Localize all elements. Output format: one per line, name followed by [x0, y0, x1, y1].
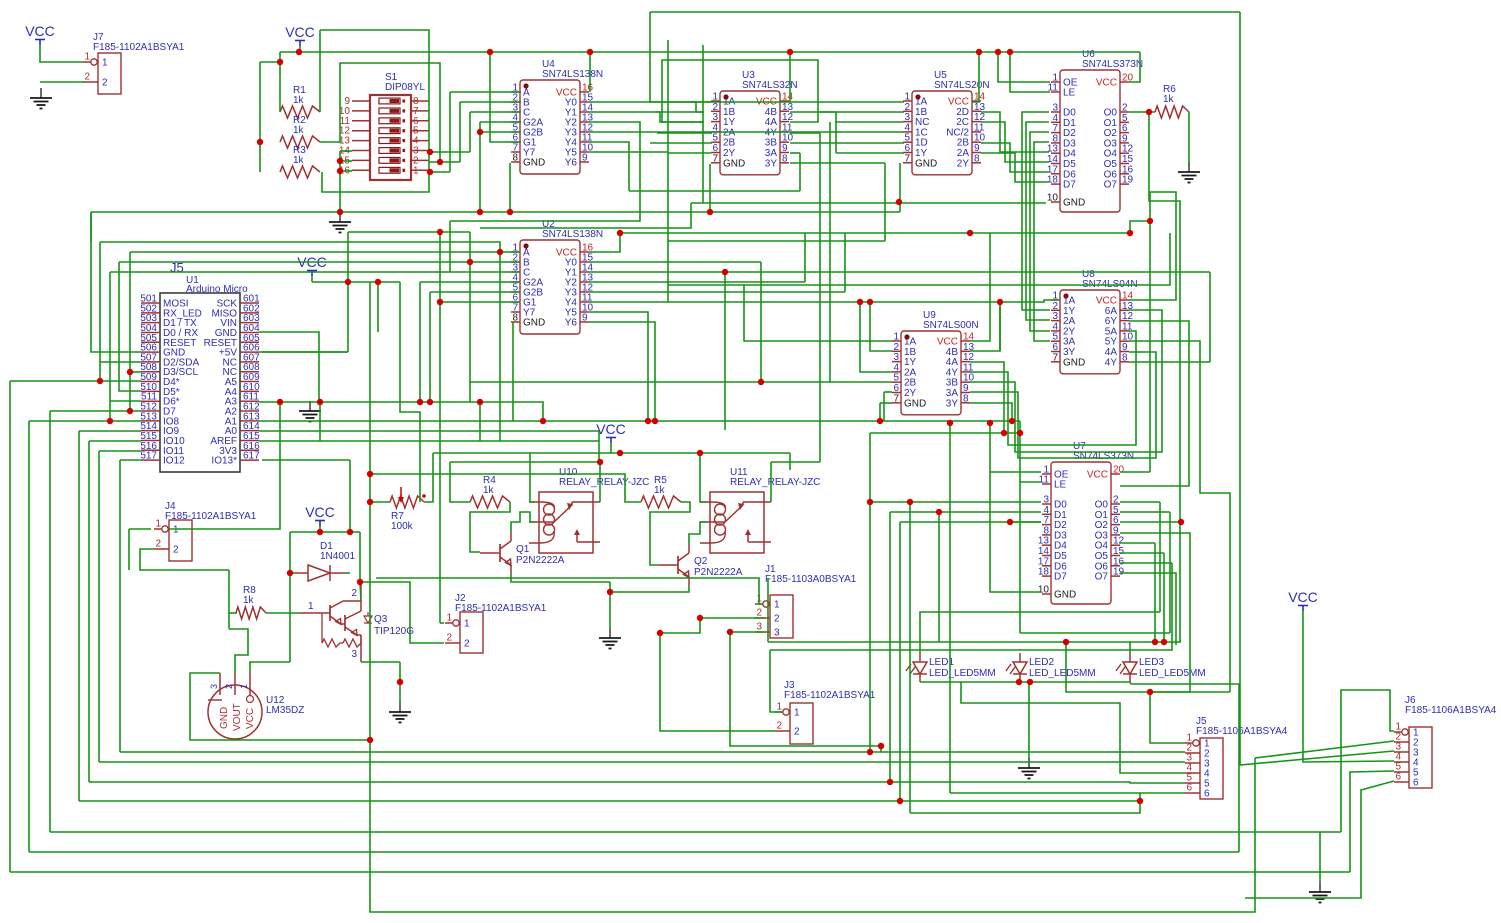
svg-text:10: 10: [1047, 193, 1059, 204]
svg-text:617: 617: [243, 451, 260, 462]
svg-text:2: 2: [155, 539, 161, 550]
svg-text:LM35DZ: LM35DZ: [266, 705, 304, 716]
svg-text:IO13*: IO13*: [211, 456, 237, 467]
svg-text:6: 6: [1186, 783, 1192, 794]
svg-text:3Y: 3Y: [765, 158, 778, 169]
svg-text:VCC: VCC: [305, 504, 335, 520]
svg-text:VCC: VCC: [596, 421, 626, 437]
svg-text:1k: 1k: [293, 155, 305, 166]
svg-text:GND: GND: [219, 707, 230, 729]
svg-text:2Y: 2Y: [957, 158, 970, 169]
svg-text:1k: 1k: [483, 485, 495, 496]
svg-text:1N4001: 1N4001: [320, 551, 355, 562]
svg-text:LE: LE: [1063, 88, 1076, 99]
svg-text:Y6: Y6: [565, 158, 578, 169]
svg-text:1k: 1k: [654, 485, 666, 496]
svg-text:6: 6: [1395, 772, 1401, 783]
svg-text:F185-1102A1BSYA1: F185-1102A1BSYA1: [455, 603, 547, 614]
svg-text:1: 1: [413, 165, 419, 176]
svg-text:GND: GND: [723, 158, 745, 169]
svg-text:7: 7: [893, 393, 899, 404]
svg-text:GND: GND: [915, 158, 937, 169]
svg-text:DIP08YL: DIP08YL: [385, 82, 425, 93]
svg-text:VCC: VCC: [285, 24, 315, 40]
svg-text:20: 20: [1113, 465, 1125, 476]
svg-text:1: 1: [84, 52, 90, 63]
svg-text:1: 1: [102, 58, 108, 69]
svg-text:8: 8: [1122, 352, 1128, 363]
svg-text:2: 2: [224, 684, 234, 689]
svg-text:3Y: 3Y: [946, 398, 959, 409]
svg-text:8: 8: [512, 153, 518, 164]
svg-text:GND: GND: [1063, 198, 1085, 209]
svg-text:VCC: VCC: [25, 23, 55, 39]
svg-text:2: 2: [794, 727, 800, 738]
svg-text:2: 2: [84, 72, 90, 83]
svg-text:2: 2: [351, 588, 357, 599]
svg-text:2: 2: [173, 545, 179, 556]
svg-text:LED_LED5MM: LED_LED5MM: [1139, 668, 1206, 679]
svg-text:P2N2222A: P2N2222A: [516, 555, 565, 566]
svg-text:1: 1: [239, 684, 249, 689]
svg-text:4Y: 4Y: [1105, 357, 1118, 368]
svg-text:6: 6: [1413, 778, 1419, 789]
svg-text:SN74LS373N: SN74LS373N: [1082, 59, 1143, 70]
svg-text:2: 2: [102, 78, 108, 89]
svg-text:VCC: VCC: [1096, 78, 1117, 89]
svg-text:7: 7: [904, 153, 910, 164]
svg-text:8: 8: [782, 153, 788, 164]
svg-text:3: 3: [351, 649, 357, 660]
svg-text:SN74LS00N: SN74LS00N: [923, 320, 979, 331]
svg-text:19: 19: [1122, 175, 1134, 186]
svg-text:F185-1106A1BSYA4: F185-1106A1BSYA4: [1196, 726, 1288, 737]
svg-text:9: 9: [582, 313, 588, 324]
svg-text:IO12: IO12: [163, 456, 185, 467]
svg-text:1: 1: [794, 708, 800, 719]
svg-text:F185-1106A1BSYA4: F185-1106A1BSYA4: [1405, 705, 1497, 716]
svg-text:18: 18: [1038, 567, 1050, 578]
svg-text:O7: O7: [1095, 572, 1109, 583]
svg-text:D7: D7: [1063, 180, 1076, 191]
svg-text:F185-1103A0BSYA1: F185-1103A0BSYA1: [765, 574, 857, 585]
svg-text:10: 10: [1038, 585, 1050, 596]
svg-text:O7: O7: [1104, 180, 1118, 191]
svg-text:6: 6: [1204, 789, 1210, 800]
svg-text:9: 9: [582, 153, 588, 164]
svg-text:3: 3: [209, 684, 219, 689]
svg-text:1: 1: [173, 525, 179, 536]
svg-text:11: 11: [1039, 475, 1050, 486]
svg-text:RELAY_RELAY-JZC: RELAY_RELAY-JZC: [559, 477, 649, 488]
svg-text:2: 2: [774, 614, 780, 625]
svg-text:GND: GND: [523, 158, 545, 169]
svg-text:7: 7: [1052, 352, 1058, 363]
svg-text:1: 1: [308, 601, 314, 612]
svg-text:F185-1102A1BSYA1: F185-1102A1BSYA1: [165, 511, 257, 522]
svg-text:Y6: Y6: [565, 318, 578, 329]
svg-text:F185-1102A1BSYA1: F185-1102A1BSYA1: [93, 42, 185, 53]
svg-text:VCC: VCC: [1288, 589, 1318, 605]
svg-text:D7: D7: [1054, 572, 1067, 583]
svg-text:LED_LED5MM: LED_LED5MM: [929, 668, 996, 679]
svg-text:1: 1: [155, 519, 161, 530]
svg-text:RELAY_RELAY-JZC: RELAY_RELAY-JZC: [730, 477, 820, 488]
svg-text:P2N2222A: P2N2222A: [694, 567, 743, 578]
svg-text:3: 3: [756, 622, 762, 633]
svg-text:19: 19: [1113, 567, 1125, 578]
svg-text:GND: GND: [904, 398, 926, 409]
svg-text:Arduino Micro: Arduino Micro: [186, 284, 248, 295]
svg-text:LE: LE: [1054, 480, 1067, 491]
svg-text:1: 1: [464, 619, 470, 630]
svg-text:GND: GND: [1063, 357, 1085, 368]
svg-text:1k: 1k: [1163, 94, 1175, 105]
svg-text:1k: 1k: [293, 125, 305, 136]
svg-text:1: 1: [776, 702, 782, 713]
svg-text:Q2: Q2: [694, 556, 708, 567]
svg-text:7: 7: [712, 153, 718, 164]
svg-text:LED_LED5MM: LED_LED5MM: [1029, 668, 1096, 679]
svg-text:SN74LS138N: SN74LS138N: [542, 229, 603, 240]
svg-text:VOUT: VOUT: [232, 703, 243, 731]
svg-text:8: 8: [963, 393, 969, 404]
svg-text:GND: GND: [523, 318, 545, 329]
svg-text:VCC: VCC: [1087, 470, 1108, 481]
svg-text:2: 2: [776, 721, 782, 732]
svg-text:Q1: Q1: [516, 544, 530, 555]
svg-text:SN74LS138N: SN74LS138N: [542, 69, 603, 80]
svg-text:2: 2: [756, 608, 762, 619]
svg-text:18: 18: [1047, 175, 1059, 186]
svg-text:1: 1: [446, 613, 452, 624]
svg-text:2: 2: [464, 639, 470, 650]
svg-text:F185-1102A1BSYA1: F185-1102A1BSYA1: [784, 690, 876, 701]
svg-text:LED2: LED2: [1029, 657, 1054, 668]
svg-text:517: 517: [140, 451, 157, 462]
svg-text:2: 2: [446, 633, 452, 644]
svg-text:LED3: LED3: [1139, 657, 1164, 668]
svg-text:SN74LS20N: SN74LS20N: [934, 80, 990, 91]
svg-text:1k: 1k: [243, 595, 255, 606]
svg-text:1k: 1k: [293, 95, 305, 106]
svg-text:1: 1: [774, 600, 780, 611]
svg-text:100k: 100k: [391, 521, 414, 532]
svg-text:VCC: VCC: [245, 708, 256, 729]
svg-text:8: 8: [512, 313, 518, 324]
svg-text:3: 3: [774, 628, 780, 639]
svg-text:TIP120G: TIP120G: [374, 626, 414, 637]
svg-text:Q3: Q3: [374, 614, 388, 625]
svg-text:8: 8: [974, 153, 980, 164]
svg-text:GND: GND: [1054, 590, 1076, 601]
